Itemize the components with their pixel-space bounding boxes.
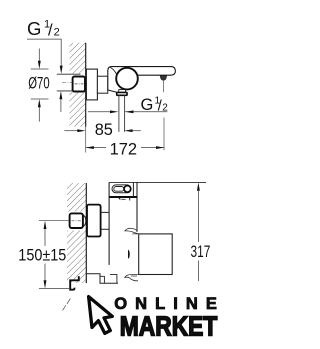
G1/2 leader arrow (down, at pipe top) bbox=[60, 66, 63, 74]
dimension 172 bbox=[86, 147, 106, 149]
lower fitting step bbox=[86, 274, 118, 284]
spout bottom edge extension + curl bbox=[125, 274, 139, 280]
svg-text:2: 2 bbox=[54, 27, 60, 39]
diverter cap (bold) bbox=[117, 92, 127, 95]
svg-text:/: / bbox=[48, 22, 53, 40]
plate bottom bold edge bbox=[109, 196, 137, 198]
svg-text:G: G bbox=[27, 18, 41, 39]
union nut (side view) bbox=[73, 77, 85, 92]
broken wall hatch stubs below bracket bbox=[63, 299, 71, 311]
G1/2 right leader underline with left arrow bbox=[125, 111, 167, 113]
wall face line (front view) bbox=[85, 183, 87, 283]
spout top edge extension + curl bbox=[125, 228, 139, 234]
nipple (side view) bbox=[97, 76, 107, 93]
dimension 85 bbox=[64, 130, 77, 132]
G1/2 second arrow (up, at pipe bottom) bbox=[59, 91, 62, 99]
union nut (front view) bbox=[82, 215, 86, 226]
escutcheon (side view) bbox=[86, 69, 97, 100]
body column (front view) bbox=[109, 181, 206, 183]
pin tick inside body bbox=[128, 250, 130, 259]
wall hatch (side view) bbox=[70, 43, 86, 127]
wall face extension line down to dimensions bbox=[85, 127, 87, 153]
svg-text:Ø70: Ø70 bbox=[28, 74, 49, 93]
dia70 dimension arrows bbox=[38, 49, 40, 62]
diverter neck bbox=[119, 90, 126, 93]
supply pipe in wall bbox=[57, 73, 81, 75]
nipple (front view) bbox=[101, 211, 110, 213]
pipe centerline bbox=[62, 82, 84, 84]
marks under plate bbox=[118, 198, 120, 201]
spout (side view) bbox=[138, 67, 175, 76]
G1/2 leader line bbox=[27, 39, 61, 65]
svg-text:172: 172 bbox=[110, 140, 138, 159]
knob circle (side view) bbox=[116, 68, 138, 90]
escutcheon (front view, bold) bbox=[87, 205, 101, 237]
dimension 317 bbox=[197, 182, 200, 190]
wall hatch (front view) bbox=[67, 183, 86, 283]
wall face line (side view) bbox=[85, 43, 87, 127]
hatch gap at pipe/nut bbox=[69, 74, 86, 92]
dia70 extension stubs bbox=[31, 68, 49, 70]
150 dim top extension / centerline bbox=[39, 220, 70, 222]
arrow from wall pointing right at pipe bbox=[88, 111, 110, 113]
svg-text:MARKET: MARKET bbox=[120, 311, 218, 342]
svg-text:85: 85 bbox=[95, 120, 113, 139]
shower outlet pipe bbox=[118, 95, 120, 131]
172 extension line from mousseur bbox=[163, 81, 165, 92]
spout (front view) bbox=[139, 234, 173, 275]
handle cap circle (bold) bbox=[124, 186, 131, 193]
lower union bracket (bold) bbox=[70, 276, 79, 290]
body housing (side view) bbox=[108, 67, 166, 95]
mousseur under spout tip bbox=[160, 75, 167, 80]
svg-text:150±15: 150±15 bbox=[18, 247, 66, 265]
cursor arrow icon bbox=[89, 295, 114, 334]
handle pill (front view) bbox=[112, 185, 131, 193]
hatch gap at nut bbox=[66, 212, 86, 231]
svg-text:317: 317 bbox=[191, 242, 211, 261]
dimension 150+-15 bbox=[44, 221, 47, 229]
